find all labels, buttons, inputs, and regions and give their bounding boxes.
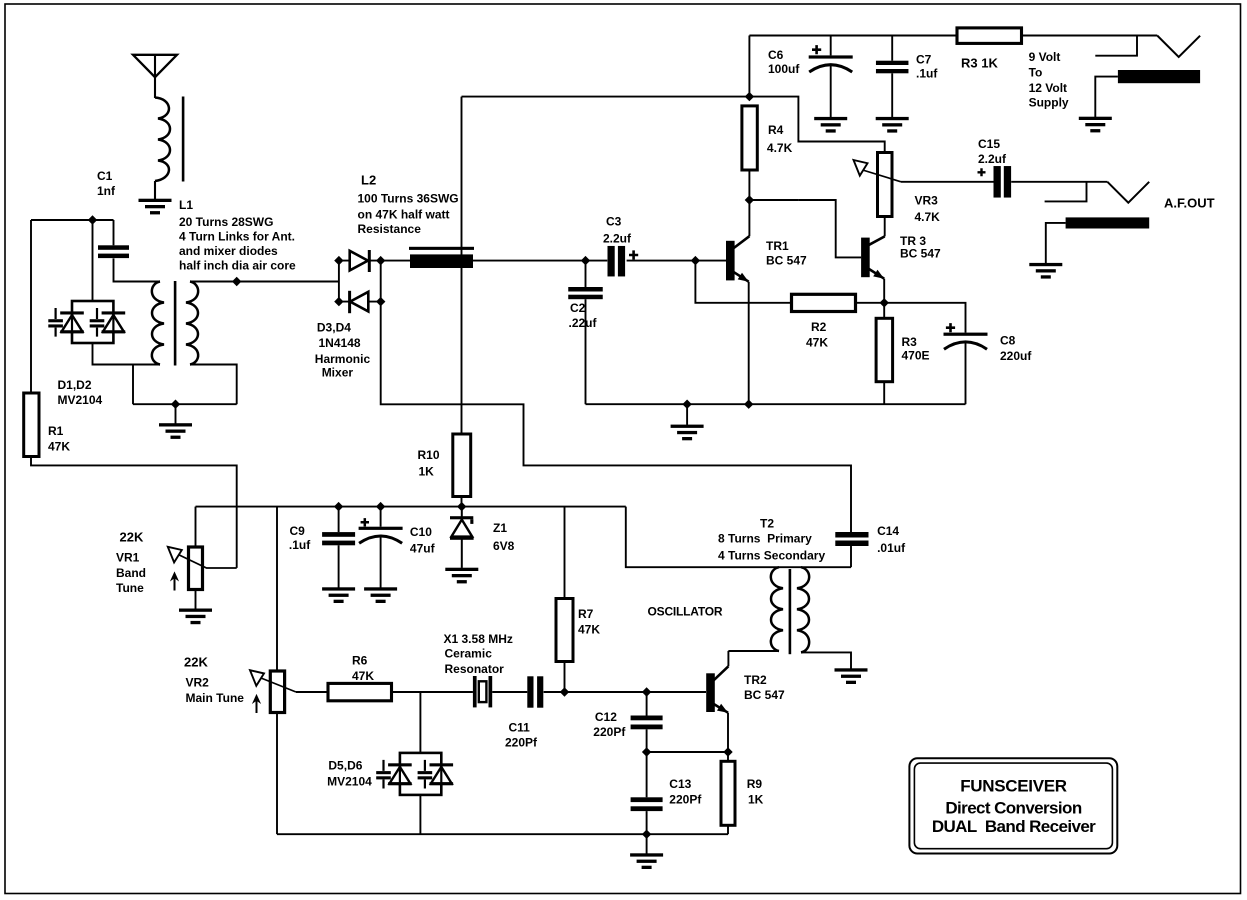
varactor diode D6 triangle and bar	[430, 763, 454, 786]
wire C2 to ground bus	[585, 299, 587, 404]
varactor diode D2 capacitor plates	[90, 308, 105, 337]
junction ground rail node	[642, 830, 651, 839]
capacitor	[322, 532, 355, 545]
svg-text:9 Volt: 9 Volt	[1029, 50, 1061, 64]
svg-text:.22uf: .22uf	[569, 316, 598, 330]
wire T2 secondary bottom to ground	[801, 652, 851, 668]
svg-text:A.F.OUT: A.F.OUT	[1164, 196, 1215, 211]
transistor TR2 emitter lead with arrow	[714, 704, 729, 713]
wire supply jack sleeve to ground	[1095, 77, 1118, 117]
wire emitter node to C8	[884, 303, 965, 333]
svg-text:8 Turns Primary: 8 Turns Primary	[718, 532, 812, 546]
wire oscillator line to C12	[646, 692, 648, 716]
wire C12 to midpoint	[646, 729, 648, 752]
varactor diode D1 triangle and bar	[60, 311, 84, 334]
antenna symbol	[133, 55, 177, 77]
svg-text:6V8: 6V8	[493, 539, 515, 553]
svg-text:4 Turn Links for Ant.: 4 Turn Links for Ant.	[179, 229, 295, 243]
wire VR2 wiper to R6	[296, 691, 328, 693]
wire through diode D4	[339, 301, 381, 303]
potentiometer VR2 wiper arrow	[250, 670, 296, 692]
svg-text:Z1: Z1	[493, 521, 507, 535]
svg-text:47K: 47K	[48, 440, 70, 454]
transistor TR2 collector lead	[714, 666, 729, 680]
wire R3 to supply jack	[1022, 35, 1158, 37]
transformer T2 primary winding	[771, 567, 783, 651]
svg-text:FUNSCEIVER: FUNSCEIVER	[960, 777, 1067, 796]
svg-text:R4: R4	[768, 123, 784, 137]
zener diode Z1 6V8	[450, 507, 474, 568]
potentiometer VR2 22K body	[270, 671, 284, 713]
junction TR3 emitter / R2 / R3 node	[880, 298, 889, 307]
svg-text:4.7K: 4.7K	[767, 141, 793, 155]
inductor L1 coil	[155, 98, 170, 182]
svg-text:BC 547: BC 547	[900, 246, 941, 260]
junction C12/C13 midpoint	[642, 747, 651, 756]
supply jack sleeve (black bar)	[1118, 70, 1200, 83]
svg-text:47uf: 47uf	[410, 542, 436, 556]
svg-text:TR1: TR1	[766, 239, 789, 253]
svg-text:R6: R6	[352, 654, 368, 668]
wire oscillator ground rail	[277, 833, 728, 835]
wire R6 to X1	[392, 691, 473, 693]
wire rail to C7	[891, 36, 893, 61]
svg-text:MV2104: MV2104	[58, 393, 103, 407]
svg-text:Main Tune: Main Tune	[186, 691, 245, 705]
wire to ground under T1	[175, 404, 177, 423]
wire node A down to R1	[30, 220, 32, 393]
plus sign of C10	[361, 518, 369, 526]
transistor TR1 emitter lead with arrow	[733, 272, 748, 282]
junction D4 anode	[376, 297, 385, 306]
svg-text:C2: C2	[570, 301, 586, 315]
wire T1 secondary top to mixer diodes	[190, 281, 339, 283]
wire node A down to D1,D2 box	[92, 220, 94, 301]
svg-text:Harmonic: Harmonic	[315, 352, 371, 366]
junction R7 at oscillator line	[560, 687, 569, 696]
svg-text:C3: C3	[606, 215, 622, 229]
transistor TR3 body bar	[861, 238, 870, 278]
electrolytic capacitor C6 100uf	[809, 55, 853, 72]
svg-text:100uf: 100uf	[768, 62, 800, 76]
junction C12 at oscillator line	[642, 687, 651, 696]
svg-text:BC 547: BC 547	[744, 688, 785, 702]
svg-text:OSCILLATOR: OSCILLATOR	[648, 605, 723, 619]
wire R9 to ground rail	[727, 825, 729, 834]
wire X1 to C11	[492, 691, 527, 693]
plus sign of C6	[812, 45, 821, 54]
potentiometer VR3 4.7K body	[878, 153, 893, 217]
ground below L1	[139, 199, 172, 215]
ground below Z1	[445, 568, 478, 584]
transformer T2 secondary winding	[797, 567, 809, 652]
junction TR1 collector node	[745, 195, 754, 204]
wire AF jack inner contact	[1045, 182, 1087, 202]
resistor R10 1K	[453, 434, 471, 497]
title box outer rounded frame	[909, 758, 1117, 853]
svg-text:12 Volt: 12 Volt	[1029, 81, 1067, 95]
junction TR1 emitter at ground bus	[744, 400, 753, 409]
svg-text:Resistance: Resistance	[358, 222, 422, 236]
ground below C7	[876, 117, 909, 133]
svg-text:C6: C6	[768, 48, 784, 62]
capacitor	[631, 797, 663, 811]
wire D5,D6 to oscillator ground rail	[419, 795, 421, 834]
ground below T2	[835, 668, 868, 684]
svg-text:2.2uf: 2.2uf	[978, 152, 1007, 166]
svg-text:20 Turns 28SWG: 20 Turns 28SWG	[179, 215, 273, 229]
svg-text:Resonator: Resonator	[445, 662, 505, 676]
plus sign of C3	[629, 250, 638, 259]
ground below supply jack	[1079, 117, 1112, 133]
resistor R6 47K	[328, 683, 392, 700]
inductor L1 core bar	[182, 97, 185, 182]
wire TR1 collector to TR3 base	[798, 200, 861, 257]
wire C7 to ground	[891, 73, 893, 117]
svg-text:C14: C14	[877, 524, 899, 538]
svg-text:Tune: Tune	[116, 581, 144, 595]
ground below VR1	[179, 609, 212, 625]
ground below C10	[364, 587, 397, 603]
transistor TR2 body bar	[706, 673, 715, 712]
diode D4 (1N4148) pointing left	[350, 291, 369, 313]
svg-text:22K: 22K	[184, 655, 208, 670]
svg-text:C8: C8	[1000, 333, 1016, 347]
capacitor	[527, 676, 543, 707]
wire supply to VR3 top	[749, 97, 884, 153]
capacitor	[98, 245, 129, 258]
diode pair box D5,D6 (varactor pair)	[400, 753, 441, 795]
svg-text:Band: Band	[116, 566, 146, 580]
junction D3 cathode	[376, 256, 385, 265]
svg-text:X1 3.58 MHz: X1 3.58 MHz	[444, 632, 513, 646]
AF output jack tip contact	[1107, 182, 1149, 203]
ground below T1	[159, 423, 192, 439]
svg-text:1K: 1K	[748, 793, 764, 807]
svg-text:R9: R9	[747, 777, 763, 791]
svg-text:R3: R3	[902, 335, 918, 349]
svg-text:1K: 1K	[419, 465, 435, 479]
svg-text:22K: 22K	[120, 530, 144, 545]
wire D1,D2 box bottom to T1 bottom loop	[93, 343, 134, 365]
wire midpoint to C13	[646, 752, 648, 797]
svg-text:C1: C1	[97, 169, 113, 183]
electrolytic capacitor C10 47uf	[359, 527, 403, 544]
svg-text:C12: C12	[595, 710, 617, 724]
svg-text:D5,D6: D5,D6	[328, 759, 362, 773]
svg-text:C10: C10	[410, 525, 432, 539]
wire T1 secondary bottom right leg	[190, 365, 237, 405]
ground on main bus	[671, 425, 704, 441]
svg-text:BC 547: BC 547	[766, 254, 807, 268]
svg-text:4.7K: 4.7K	[915, 210, 941, 224]
wire C15 to AF jack	[1011, 181, 1107, 183]
wire base node down to R2	[695, 261, 791, 303]
junction tap dot on secondary wire	[232, 277, 241, 286]
svg-text:C13: C13	[669, 777, 691, 791]
svg-text:1nf: 1nf	[97, 184, 116, 198]
junction emitter / C12-C13 node	[723, 747, 732, 756]
electrolytic capacitor C8 220uf	[944, 333, 988, 350]
svg-text:100 Turns 36SWG: 100 Turns 36SWG	[358, 192, 459, 206]
svg-text:220Pf: 220Pf	[505, 736, 538, 750]
potentiometer VR1 22K body	[189, 547, 203, 590]
svg-text:Mixer: Mixer	[322, 365, 354, 379]
wire main ground bus	[586, 403, 966, 405]
wire C11 to TR2 base	[544, 691, 706, 693]
wire mixer node through L2 to C3	[381, 260, 608, 262]
svg-text:.01uf: .01uf	[877, 541, 906, 555]
wire tuning supply rail	[196, 506, 626, 508]
wire left side of diode ring	[338, 261, 340, 302]
svg-text:Direct Conversion: Direct Conversion	[945, 799, 1081, 818]
svg-text:47K: 47K	[352, 669, 374, 683]
svg-text:L2: L2	[361, 173, 376, 188]
wire rail down to VR1	[195, 507, 197, 547]
wire T1 bottom ground bus	[133, 403, 237, 405]
wire rail to C10	[380, 507, 382, 527]
potentiometer VR3 wiper arrow	[854, 160, 902, 182]
transistor TR1 collector lead	[733, 236, 749, 248]
wire VR3 wiper to C15	[901, 181, 994, 183]
capacitor	[994, 166, 1012, 198]
svg-text:VR2: VR2	[186, 676, 210, 690]
up arrow beside VR1	[170, 571, 179, 590]
svg-text:1N4148: 1N4148	[319, 336, 361, 350]
wire antenna to L1	[154, 55, 156, 98]
wire rail to C9	[338, 507, 340, 532]
svg-text:VR3: VR3	[915, 194, 939, 208]
transformer T1 secondary winding	[186, 282, 198, 365]
plus sign of C8	[946, 323, 955, 332]
svg-text:R10: R10	[418, 448, 440, 462]
AF jack sleeve (black bar)	[1066, 217, 1150, 228]
svg-text:TR2: TR2	[744, 673, 767, 687]
wire C6 to ground	[830, 64, 832, 117]
wire R7 to oscillator line	[564, 662, 566, 692]
wire TR2 emitter down to R9	[727, 713, 729, 762]
wire stub to oscillator ground	[646, 834, 648, 853]
wire R4 to TR1 collector	[748, 170, 750, 236]
wire supply jack inner contact	[1095, 36, 1137, 56]
resistor R4 4.7K	[742, 106, 757, 170]
transistor TR1 body bar	[726, 241, 735, 281]
wire T2 primary bottom to TR2 collector	[728, 650, 779, 652]
wire R2 to emitter node	[856, 302, 885, 304]
svg-text:T2: T2	[760, 517, 774, 531]
transistor TR3 emitter lead with arrow	[868, 269, 884, 279]
wire node A to C1	[113, 220, 115, 245]
wire C13 to ground rail	[646, 811, 648, 834]
resistor R3 470E	[876, 318, 893, 381]
resistor R1 47K	[24, 393, 39, 457]
svg-text:R1: R1	[48, 424, 64, 438]
junction ground bus node	[682, 400, 691, 409]
varactor diode D5 capacitor plates	[376, 760, 391, 789]
wire rail to C6	[830, 36, 832, 56]
capacitor	[835, 532, 868, 546]
svg-text:220uf: 220uf	[1000, 349, 1032, 363]
transformer T1 core bar	[174, 281, 177, 366]
wire AF jack sleeve to ground	[1046, 223, 1066, 263]
svg-text:Supply: Supply	[1029, 96, 1069, 110]
up arrow beside VR2	[252, 694, 261, 713]
wire R1 bottom to VR1 wiper net	[31, 457, 237, 568]
junction D4 cathode	[334, 297, 343, 306]
capacitor	[568, 287, 603, 299]
junction on node A above D1,D2	[88, 215, 97, 224]
svg-text:VR1: VR1	[116, 551, 140, 565]
wire 9V supply rail	[749, 35, 957, 37]
svg-text:on 47K half watt: on 47K half watt	[358, 208, 450, 222]
capacitor	[876, 61, 909, 74]
svg-text:DUAL Band Receiver: DUAL Band Receiver	[932, 817, 1096, 836]
svg-text:half inch dia air core: half inch dia air core	[179, 258, 296, 272]
wire R3 to ground bus	[883, 382, 885, 405]
resistor R3 1K	[957, 28, 1022, 44]
resistor R2 47K	[792, 294, 856, 311]
inductor L2 top bar	[409, 247, 474, 250]
svg-text:47K: 47K	[578, 623, 600, 637]
wire C9 to ground	[338, 545, 340, 587]
wire rail down to R7	[564, 507, 566, 599]
wire top feed to L2 node	[462, 96, 750, 98]
plus sign of C15	[978, 168, 986, 176]
ground below oscillator	[630, 853, 663, 869]
wire C1 to T1 primary top	[114, 258, 161, 281]
transformer T1 primary winding	[152, 282, 164, 365]
varactor diode D5 triangle and bar	[388, 763, 412, 786]
capacitor	[608, 246, 626, 277]
wire C3 to TR1 base	[627, 260, 726, 262]
wire R10 to zener rail	[461, 497, 463, 507]
wire TR2 collector to T2 primary	[727, 651, 729, 666]
ceramic resonator X1	[473, 676, 492, 707]
wire C14 to T2 top	[850, 546, 852, 567]
svg-text:220Pf: 220Pf	[593, 725, 626, 739]
title box inner rounded frame	[914, 763, 1112, 849]
svg-text:C11: C11	[509, 721, 531, 735]
wire C8 to ground bus	[965, 342, 967, 404]
wire TR3 emitter down	[883, 279, 885, 319]
junction C10 node	[376, 502, 385, 511]
potentiometer VR1 wiper arrow	[168, 547, 237, 568]
resistor R9 1K	[721, 761, 735, 825]
svg-text:R3 1K: R3 1K	[961, 56, 998, 71]
ground below AF jack	[1029, 263, 1062, 279]
junction TR1 base node	[691, 256, 700, 265]
junction D3 anode	[334, 256, 343, 265]
wire down to D5,D6	[419, 692, 421, 753]
wire stub to ground symbol	[686, 404, 688, 425]
wire mixer output to oscillator injection / C14	[381, 302, 851, 532]
wire right side of diode ring	[380, 261, 382, 302]
svg-text:.1uf: .1uf	[289, 538, 311, 552]
svg-text:C15: C15	[978, 137, 1000, 151]
junction R10 / Z1 node	[457, 502, 466, 511]
svg-text:47K: 47K	[806, 335, 828, 349]
diode D3 (1N4148) pointing right	[350, 250, 370, 272]
varactor diode D6 capacitor plates	[418, 760, 433, 789]
inductor L2 body (wound on resistor)	[410, 254, 473, 268]
diode pair box D1,D2 (varactor pair)	[72, 301, 113, 343]
capacitor	[631, 716, 663, 730]
svg-text:Ceramic: Ceramic	[445, 647, 493, 661]
wire supply rail down to R4 node	[748, 36, 750, 97]
wire L1 to ground	[154, 181, 156, 199]
wire VR3 bottom to TR3 collector	[884, 217, 886, 237]
transistor TR3 collector lead	[868, 236, 884, 245]
svg-text:C7: C7	[916, 53, 932, 67]
wire top-left node A horizontal	[31, 219, 114, 221]
svg-text:R7: R7	[578, 607, 594, 621]
wire L2 node down to R10 and up to supply line	[461, 97, 463, 434]
ground below C9	[322, 587, 355, 603]
wire C12/C13 node to emitter node	[647, 751, 728, 753]
wire down to C2	[585, 261, 587, 287]
resistor R7 47K	[556, 599, 573, 662]
transformer T2 core bar	[789, 569, 792, 654]
svg-text:470E: 470E	[902, 349, 930, 363]
wire T1 primary bottom left leg	[133, 365, 160, 405]
svg-text:To: To	[1029, 66, 1043, 80]
junction C9 node	[334, 502, 343, 511]
svg-text:and mixer diodes: and mixer diodes	[179, 244, 278, 258]
svg-text:MV2104: MV2104	[327, 775, 372, 789]
svg-text:2.2uf: 2.2uf	[603, 232, 632, 246]
wire rail down to VR2	[276, 507, 278, 671]
varactor diode D1 capacitor plates	[48, 308, 63, 337]
svg-text:D1,D2: D1,D2	[58, 378, 92, 392]
wire through diode D3	[339, 260, 381, 262]
wire VR2 bottom to oscillator ground rail	[276, 713, 278, 835]
varactor diode D2 triangle and bar	[102, 311, 126, 334]
ground below C6	[814, 117, 847, 133]
svg-text:220Pf: 220Pf	[669, 793, 702, 807]
svg-text:L1: L1	[179, 198, 193, 212]
wire rail to T2 top	[626, 507, 851, 568]
svg-text:C9: C9	[290, 524, 306, 538]
wire VR1 to ground	[195, 590, 197, 609]
svg-text:D3,D4: D3,D4	[317, 320, 351, 334]
supply jack tip contact	[1157, 36, 1200, 58]
junction C2 tap	[581, 256, 590, 265]
svg-text:4 Turns Secondary: 4 Turns Secondary	[718, 549, 825, 563]
wire TR1 emitter to ground bus	[748, 282, 750, 405]
junction R4 top node	[745, 92, 754, 101]
wire collector node toward VR3... (upper seg)	[749, 199, 798, 201]
svg-text:.1uf: .1uf	[916, 67, 938, 81]
wire C10 to ground	[380, 536, 382, 588]
svg-text:R2: R2	[811, 320, 827, 334]
junction T1 ground node	[171, 400, 180, 409]
